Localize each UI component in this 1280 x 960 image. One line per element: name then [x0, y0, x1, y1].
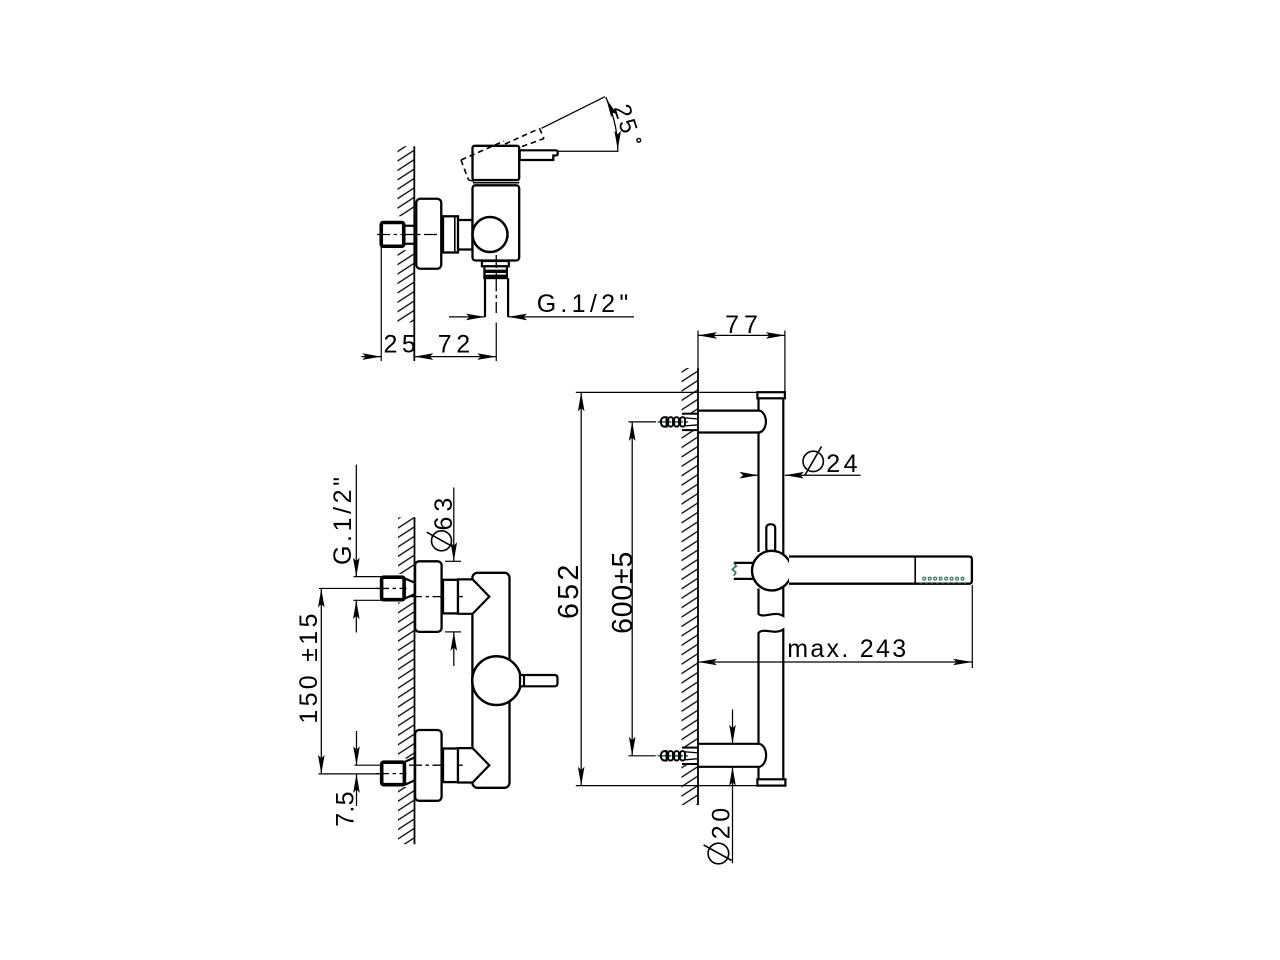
- svg-text:max. 243: max. 243: [787, 635, 908, 663]
- svg-text:63: 63: [430, 493, 458, 531]
- svg-text:G.1/2": G.1/2": [537, 290, 633, 318]
- svg-text:20: 20: [708, 804, 736, 839]
- svg-text:G.1/2": G.1/2": [329, 473, 357, 565]
- svg-text:600±5: 600±5: [607, 551, 639, 634]
- svg-text:150 ±15: 150 ±15: [295, 610, 323, 723]
- svg-text:7.5: 7.5: [332, 791, 360, 827]
- svg-text:24: 24: [826, 450, 861, 478]
- svg-text:77: 77: [725, 311, 763, 339]
- svg-text:25: 25: [384, 331, 421, 359]
- svg-text:72: 72: [438, 331, 475, 359]
- svg-text:652: 652: [553, 561, 585, 619]
